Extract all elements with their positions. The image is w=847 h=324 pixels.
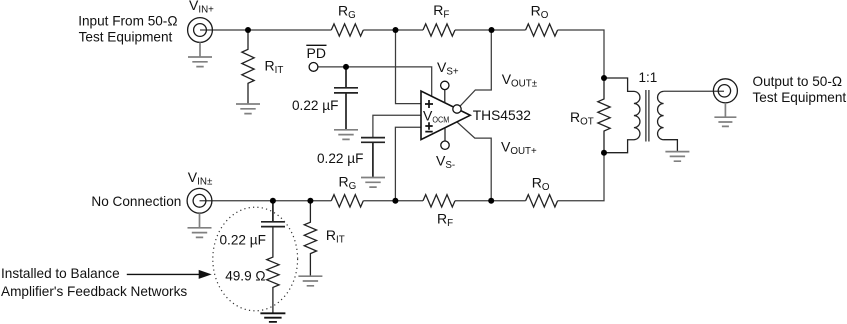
pin VS+ [444, 90, 446, 103]
node ROT top [601, 75, 607, 81]
svg-text:VIN±: VIN± [188, 169, 213, 188]
svg-text:RG: RG [338, 3, 356, 22]
resistor RF bottom [423, 195, 455, 207]
capacitor 0.22uF PD [334, 67, 358, 130]
ground RIT top [236, 104, 260, 114]
ground cap Vocm [361, 178, 385, 188]
svg-text:1:1: 1:1 [639, 70, 658, 85]
connector output [713, 79, 737, 103]
capacitor 0.22uF Vocm [361, 138, 385, 178]
node balance cap [270, 198, 276, 204]
node -input [392, 198, 398, 204]
wire output to connector [664, 90, 724, 92]
svg-text:0.22 µF: 0.22 µF [317, 151, 363, 166]
pin VS- [444, 128, 446, 141]
dotted ellipse balance network [213, 207, 298, 311]
svg-text:THS4532: THS4532 [473, 108, 531, 123]
plusminus input symbol [425, 122, 432, 131]
node +input [393, 27, 399, 33]
svg-text:RO: RO [531, 3, 549, 22]
pin PD circle [309, 63, 318, 72]
transformer right winding [658, 91, 678, 151]
resistor ROT [598, 78, 610, 153]
node ROT bottom [601, 150, 607, 156]
plus input symbol [425, 100, 433, 108]
node Vout+ bottom [488, 198, 494, 204]
svg-text:VOUT+: VOUT+ [501, 139, 537, 158]
ground RIT bottom [298, 276, 322, 286]
transformer core [646, 90, 649, 142]
resistor RO bottom [526, 195, 558, 207]
svg-text:RF: RF [433, 2, 449, 21]
transformer T1 left winding [604, 78, 640, 153]
resistor RIT bottom [304, 201, 316, 276]
wire -input node [395, 127, 421, 201]
wire +input node [396, 30, 422, 104]
svg-text:PD: PD [307, 45, 326, 61]
ground VIN- connector [188, 213, 212, 237]
svg-text:Output to 50-Ω: Output to 50-Ω [753, 74, 843, 89]
arrow to ellipse [127, 273, 199, 275]
svg-text:0.22 µF: 0.22 µF [292, 98, 338, 113]
wire Vout+ bottom [457, 122, 491, 201]
wire Vout- top [460, 30, 491, 106]
svg-text:No Connection: No Connection [91, 194, 181, 209]
resistor RF top [423, 24, 455, 36]
svg-text:RO: RO [532, 175, 550, 194]
output inversion circle [453, 105, 461, 113]
svg-text:VS-: VS- [436, 153, 455, 172]
svg-text:49.9 Ω: 49.9 Ω [225, 268, 265, 283]
ground transformer [665, 152, 689, 162]
resistor RIT top [242, 30, 254, 104]
ground input connector [188, 42, 212, 66]
svg-text:ROT: ROT [570, 109, 594, 128]
svg-text:Input From 50-Ω: Input From 50-Ω [78, 14, 177, 29]
svg-text:Installed to Balance: Installed to Balance [1, 266, 120, 281]
capacitor 0.22uF balance [261, 201, 285, 227]
resistor RG top [331, 24, 363, 36]
ground cap PD [334, 130, 358, 140]
wire top main [200, 30, 604, 78]
svg-text:VOUT±: VOUT± [502, 71, 538, 90]
svg-text:Amplifier's Feedback Networks: Amplifier's Feedback Networks [1, 284, 187, 299]
node RIT bottom [307, 198, 313, 204]
op-amp U1 THS4532 triangle [421, 91, 470, 140]
svg-text:VS+: VS+ [437, 59, 459, 78]
ground output connector [714, 103, 736, 127]
resistor 49.9 ohm [267, 227, 279, 314]
node Vout- top [489, 27, 495, 33]
connector input VIN- [187, 188, 212, 213]
svg-text:RF: RF [437, 211, 453, 230]
svg-text:0.22 µF: 0.22 µF [220, 233, 266, 248]
node PD [343, 64, 349, 70]
svg-text:RIT: RIT [326, 227, 345, 246]
svg-text:Test Equipment: Test Equipment [79, 29, 173, 44]
resistor RO top [526, 24, 558, 36]
resistor RG bottom [331, 195, 363, 207]
connector input VIN+ [188, 18, 213, 43]
wire PD net [318, 67, 432, 96]
svg-text:RG: RG [339, 173, 357, 192]
svg-text:VIN+: VIN+ [189, 0, 214, 15]
svg-text:Test Equipment: Test Equipment [753, 90, 847, 105]
wire bottom main [200, 153, 605, 201]
svg-text:RIT: RIT [265, 58, 284, 77]
node input top [245, 27, 251, 33]
ground 49.9 ohm (black) [260, 313, 285, 322]
wire Vocm [373, 115, 421, 137]
